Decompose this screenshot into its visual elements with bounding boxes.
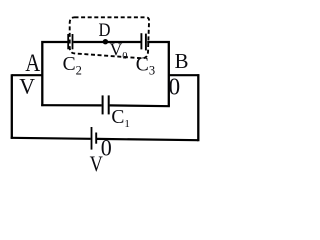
capacitor C2 bbox=[68, 34, 72, 49]
wire: outer bottom, right of battery bbox=[97, 139, 198, 140]
wire: top-right segment from C3 to corner B and right vertical down bbox=[147, 42, 169, 106]
wire: left junction horizontal at node A bbox=[12, 74, 43, 76]
wire: left vertical branch and top-left segment to C2 bbox=[42, 42, 67, 106]
svg-text:B: B bbox=[175, 49, 189, 73]
svg-text:C2: C2 bbox=[63, 54, 82, 78]
svg-text:V: V bbox=[90, 151, 103, 176]
svg-text:C3: C3 bbox=[136, 55, 155, 78]
capacitor C1 bbox=[103, 95, 109, 114]
wire: top middle segment between C2 and C3 bbox=[73, 41, 141, 43]
svg-text:V: V bbox=[19, 73, 35, 98]
wire: right junction horizontal at node B bbox=[169, 74, 200, 76]
wire: inner bottom right of C1 bbox=[110, 104, 170, 107]
wire: outer right vertical bbox=[197, 74, 199, 141]
node D junction dot bbox=[103, 39, 108, 44]
svg-text:0: 0 bbox=[169, 74, 181, 101]
wire: inner bottom left of C1 bbox=[41, 104, 101, 106]
dashed enclosure around C2, D and C3 bbox=[70, 17, 149, 58]
battery cell: long positive plate bbox=[91, 127, 93, 150]
battery cell: short negative plate bbox=[95, 133, 97, 144]
svg-text:C1: C1 bbox=[111, 107, 130, 130]
capacitor C3 bbox=[141, 33, 146, 50]
wire: outer left vertical bbox=[11, 74, 13, 139]
svg-text:D: D bbox=[99, 20, 111, 41]
wire: outer bottom, left of battery bbox=[11, 138, 91, 139]
